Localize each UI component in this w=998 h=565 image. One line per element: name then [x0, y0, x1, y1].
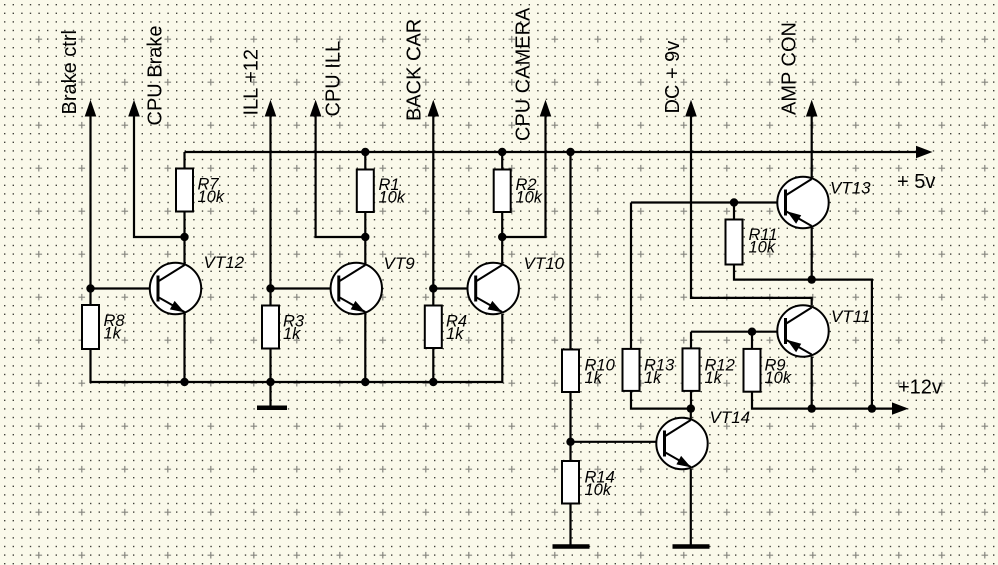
svg-text:1k: 1k [446, 325, 464, 343]
node junction dots [86, 148, 876, 446]
svg-text:VT10: VT10 [524, 254, 565, 273]
wire R2 top [501, 152, 503, 170]
wire CPU Brake stem [134, 114, 185, 237]
ground R14 [553, 544, 590, 549]
svg-text:VT9: VT9 [384, 254, 416, 273]
wire R2 bottom [501, 212, 503, 237]
wire CPU ILL stem [316, 114, 366, 237]
svg-text:+ 5v: + 5v [897, 171, 935, 193]
wire R12 top lead [690, 332, 692, 349]
arrow +5v [916, 146, 933, 158]
svg-text:10k: 10k [198, 188, 225, 206]
wire R7 bottom [183, 212, 185, 238]
svg-text:CPU ILL: CPU ILL [323, 41, 345, 117]
svg-text:1k: 1k [585, 369, 603, 387]
wire R9 bottom to +12v rail B [752, 392, 894, 409]
wire VT10 collector lead [501, 237, 503, 266]
svg-text:1k: 1k [644, 369, 662, 387]
ground ILL node [257, 406, 287, 411]
wire R1 bottom [364, 212, 366, 237]
svg-text:10k: 10k [379, 189, 406, 207]
resistor R3 [262, 306, 305, 349]
resistor R13 [623, 349, 676, 391]
wire R13 top lead [630, 203, 632, 349]
wire CPU CAMERA stem [502, 114, 545, 237]
wire VT14 base [571, 441, 665, 443]
wire VT12 emitter lead [183, 312, 185, 383]
wire AMP CON stem / VT13 collector [811, 114, 813, 178]
svg-text:CPU CAMERA: CPU CAMERA [513, 7, 535, 141]
resistor R14 [562, 461, 615, 504]
wire VT13 emitter to +12v [812, 228, 872, 409]
arrow CPU CAMERA [540, 100, 552, 117]
wire R1 top [364, 152, 366, 170]
svg-text:10k: 10k [749, 239, 776, 257]
wire R10 top [569, 152, 571, 350]
wire VT9 emitter lead [364, 312, 366, 383]
svg-text:10k: 10k [585, 481, 612, 499]
svg-text:+12v: +12v [898, 377, 942, 399]
wire R7 top [183, 152, 185, 169]
wire R11 bottom lead [734, 265, 812, 280]
wire Brake ctrl stem [89, 114, 91, 305]
transistor VT12 [150, 253, 245, 314]
svg-text:1k: 1k [104, 325, 122, 343]
wire R4 bottom [432, 348, 434, 382]
wire R9 top lead [751, 332, 753, 349]
wire VT11 emitter lead [811, 357, 813, 409]
arrow BACK CAR [428, 100, 440, 117]
resistor R2 [494, 170, 543, 213]
resistor R4 [425, 306, 467, 349]
wire R14 bottom to ground [569, 504, 571, 546]
transistor VT10 [468, 254, 565, 314]
resistor R8 [82, 305, 125, 349]
arrow Brake ctrl [85, 100, 97, 117]
wire VT12 collector lead [183, 237, 185, 266]
wire R13 bottom to +12v rail A [631, 391, 691, 409]
wire VT13 base line [631, 201, 785, 203]
transistor VT13 [777, 177, 871, 228]
wire DC +9v stem to VT11 collector [691, 114, 812, 306]
wire R8 bottom to bottom rail [91, 314, 503, 382]
resistor R7 [176, 169, 225, 212]
wire VT10 base [433, 287, 475, 289]
resistor R11 [726, 220, 778, 265]
wire R12 bottom lead [690, 391, 692, 409]
svg-text:ILL +12: ILL +12 [241, 49, 263, 116]
svg-text:BACK CAR: BACK CAR [404, 19, 426, 121]
arrow CPU Brake [128, 100, 140, 117]
wire R11 top lead [733, 203, 735, 220]
svg-text:VT12: VT12 [204, 253, 245, 272]
wire VT9 collector lead [364, 237, 366, 266]
wire VT12 base [91, 287, 158, 289]
arrow DC +9v [685, 100, 697, 117]
svg-text:VT11: VT11 [831, 307, 870, 326]
svg-text:DC + 9v: DC + 9v [662, 41, 684, 114]
arrow AMP CON [806, 100, 818, 117]
svg-text:AMP CON: AMP CON [779, 22, 801, 115]
wire ILL +12 stem [269, 114, 271, 306]
svg-text:VT13: VT13 [830, 179, 871, 198]
svg-text:Brake ctrl: Brake ctrl [59, 30, 81, 114]
svg-text:CPU Brake: CPU Brake [145, 25, 167, 125]
wire BACK CAR stem [432, 114, 434, 306]
wire VT14 emitter to ground [690, 469, 692, 545]
wire R10 bottom [569, 392, 571, 461]
arrow ILL +12 [265, 100, 277, 117]
arrow +12v [892, 402, 909, 414]
svg-text:1k: 1k [705, 369, 723, 387]
ground VT14 [673, 544, 710, 549]
transistor VT9 [331, 254, 416, 314]
svg-text:10k: 10k [516, 189, 543, 207]
wire R3 bottom to ground [269, 349, 271, 407]
resistor R12 [683, 348, 735, 391]
svg-text:1k: 1k [283, 325, 301, 343]
resistor R1 [357, 170, 406, 213]
transistor VT14 [656, 408, 750, 469]
resistor R10 [562, 350, 616, 393]
svg-text:VT14: VT14 [710, 408, 751, 427]
wire +5v rail [185, 151, 919, 153]
transistor VT11 [777, 305, 870, 356]
arrow CPU ILL [310, 100, 322, 117]
resistor R9 [744, 349, 792, 392]
svg-text:10k: 10k [765, 369, 792, 387]
wire VT11 base line [691, 331, 785, 333]
wire VT9 base [271, 287, 339, 289]
wire VT14 collector lead [690, 409, 692, 419]
